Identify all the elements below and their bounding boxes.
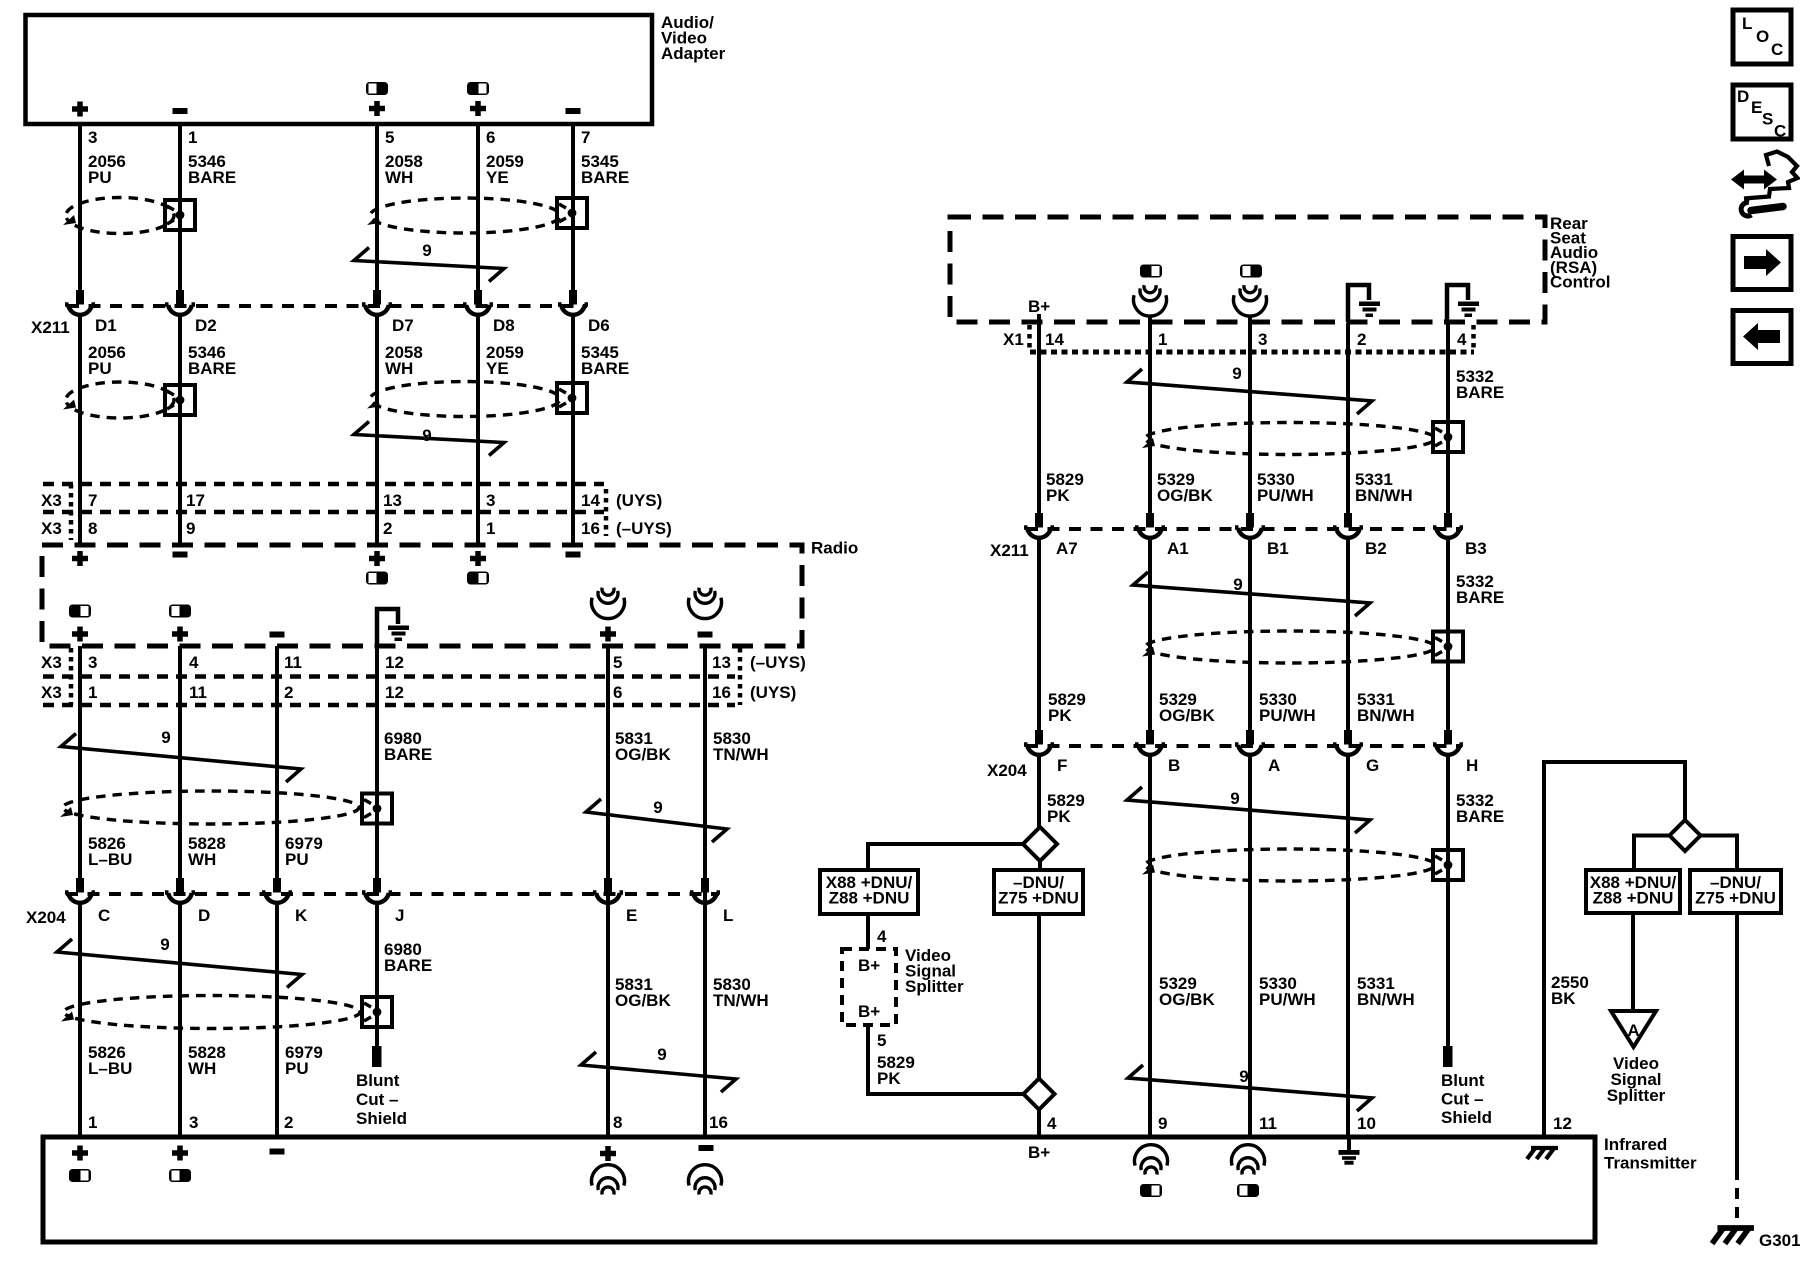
connector X211 pin B2 <box>1333 513 1387 558</box>
radio RCA icon (X3-2) <box>366 572 388 585</box>
pin number 1 (AV) <box>188 128 197 147</box>
wire label 2058 WH mid <box>385 343 423 378</box>
pin number 1 (IR box left) <box>88 1113 97 1132</box>
wire label 5330 PU/WH seg1 <box>1257 470 1314 505</box>
pin 1 X3 row2 below radio <box>88 683 97 702</box>
wire label 5829 PK seg2 <box>1048 690 1086 725</box>
svg-text:D: D <box>198 906 210 925</box>
wire -DNU to G301 (solid) <box>1735 913 1739 1169</box>
pin number 3 (IR box left) <box>189 1113 198 1132</box>
svg-text:9: 9 <box>657 1045 666 1064</box>
svg-text:X211: X211 <box>990 541 1029 560</box>
svg-text:X204: X204 <box>987 761 1027 780</box>
wire 5332 BARE (X204 to blunt cut) <box>1446 757 1450 1046</box>
wire 5828 WH (X204 to IR) <box>178 905 182 1135</box>
box Video Signal Splitter (dashed, left) <box>842 949 896 1025</box>
wire 5330 PU/WH (X211 to X204) <box>1248 540 1252 732</box>
label Blunt Cut Shield (left) <box>356 1071 407 1128</box>
blunt cut shield end (5332) <box>1443 1046 1453 1067</box>
pin 12 X3 row2 below radio <box>385 683 404 702</box>
svg-text:3: 3 <box>1258 330 1267 349</box>
svg-text:BN/WH: BN/WH <box>1357 990 1415 1009</box>
box Rear Seat Audio RSA Control (dashed) <box>950 217 1545 322</box>
svg-text:PK: PK <box>877 1069 901 1088</box>
svg-text:4: 4 <box>189 653 199 672</box>
wire label 5831 OG/BK lower <box>615 975 671 1010</box>
pin number 11 (IR box right) <box>1259 1114 1277 1133</box>
connector X3 row -UYS (below radio) <box>43 648 740 705</box>
svg-text:A: A <box>1268 756 1280 775</box>
wire label 2059 YE mid <box>486 343 524 378</box>
splitter B+ top <box>858 956 880 975</box>
wire 2550 BK <box>1544 762 1685 1135</box>
pin 16 X3 row2 below radio <box>712 683 731 702</box>
svg-text:13: 13 <box>383 491 402 510</box>
svg-text:A: A <box>1627 1021 1639 1040</box>
wire -DNU to splice 2 <box>1037 914 1041 1079</box>
connector X204 pin F <box>1024 730 1067 775</box>
svg-text:Splitter: Splitter <box>905 977 964 996</box>
wire label 5346 BARE upper <box>188 152 236 187</box>
connector X204 pin C <box>65 878 110 925</box>
svg-text:BARE: BARE <box>1456 588 1504 607</box>
svg-text:A7: A7 <box>1056 539 1078 558</box>
svg-text:PK: PK <box>1047 807 1071 826</box>
wire 5828 WH (radio to X204) <box>178 646 182 878</box>
wire X88 to video splitter triangle <box>1631 913 1635 1011</box>
wire label 5329 OG/BK seg3 <box>1159 974 1215 1009</box>
wire 5329 OG/BK (X204 to IR) <box>1148 757 1152 1135</box>
wire label 5828 WH upper <box>188 834 226 869</box>
svg-text:YE: YE <box>486 168 509 187</box>
svg-text:4: 4 <box>1047 1114 1057 1133</box>
radio pin + (X3-2) <box>369 551 385 566</box>
pin 8 X3 -UYS row <box>88 519 97 538</box>
svg-text:13: 13 <box>712 653 731 672</box>
svg-text:12: 12 <box>385 683 404 702</box>
label X3 (below radio row2) <box>41 683 62 702</box>
twisted-wires arrow 9 (upper) <box>354 241 504 282</box>
wire 5346 BARE (AV pin 1 to X211) <box>178 124 182 290</box>
svg-text:(UYS): (UYS) <box>750 683 796 702</box>
connector X204 pin L <box>690 878 733 925</box>
svg-text:PU: PU <box>88 359 112 378</box>
svg-text:9: 9 <box>1232 364 1241 383</box>
svg-text:B3: B3 <box>1465 539 1487 558</box>
svg-text:2: 2 <box>1357 330 1366 349</box>
RSA pin stub B+ <box>1037 314 1041 352</box>
svg-text:BARE: BARE <box>581 168 629 187</box>
label Audio/Video Adapter <box>661 13 726 63</box>
RSA RCA icon (pin 3) <box>1240 265 1262 278</box>
IR pin + ant L <box>600 1146 616 1161</box>
svg-text:L: L <box>723 906 733 925</box>
svg-text:L–BU: L–BU <box>88 1059 132 1078</box>
IR waves up (pin 9) <box>1135 1145 1168 1175</box>
svg-text:11: 11 <box>189 683 207 702</box>
connector X211 pin D7 <box>362 290 414 335</box>
pin 16 X3 -UYS row <box>581 519 600 538</box>
radio pin + out L <box>72 627 88 642</box>
connector X3 row UYS bottom (below radio) <box>43 703 735 708</box>
wire label 2056 PU mid <box>88 343 126 378</box>
svg-text:TN/WH: TN/WH <box>713 991 769 1010</box>
connector line X204 (right) <box>1026 744 1462 748</box>
svg-text:5: 5 <box>385 128 394 147</box>
svg-text:F: F <box>1057 756 1067 775</box>
connector X204 pin K <box>262 878 308 925</box>
connector line X204 (left) <box>66 892 719 896</box>
IR waves up L (pin 8) <box>591 1165 624 1195</box>
connector X204 pin G <box>1333 730 1379 775</box>
pin 1 X1 row <box>1158 330 1167 349</box>
shield termination rep (5346 BARE) <box>165 385 195 415</box>
pin 13 X3 row1 below radio <box>712 653 731 672</box>
label Radio <box>811 539 858 558</box>
svg-text:9: 9 <box>422 241 431 260</box>
connector X211 pin D1 <box>65 290 117 335</box>
label X204 (left) <box>26 908 66 927</box>
svg-text:12: 12 <box>1553 1114 1572 1133</box>
svg-text:Z88 +DNU: Z88 +DNU <box>829 889 910 908</box>
svg-text:Blunt: Blunt <box>1441 1071 1485 1090</box>
svg-text:S: S <box>1762 110 1773 129</box>
RSA ground pin 2 <box>1348 285 1380 322</box>
svg-text:2: 2 <box>284 683 293 702</box>
shield termination rep (5345 BARE) <box>557 383 587 413</box>
pin 11 X3 row2 below radio <box>189 683 207 702</box>
svg-text:D7: D7 <box>392 316 414 335</box>
svg-text:BN/WH: BN/WH <box>1357 706 1415 725</box>
pin number 10 (IR box right) <box>1357 1114 1376 1133</box>
svg-text:BARE: BARE <box>1456 383 1504 402</box>
IR pin + L <box>72 1146 88 1161</box>
RSA waves down (pin 3) <box>1233 285 1266 325</box>
wire 6979 PU (X204 to IR) <box>275 905 279 1135</box>
wire label 5331 BN/WH seg3 <box>1357 974 1415 1009</box>
svg-text:D8: D8 <box>493 316 515 335</box>
wire label 5345 BARE mid <box>581 343 629 378</box>
wire label 5331 BN/WH seg1 <box>1355 470 1413 505</box>
svg-text:8: 8 <box>613 1113 622 1132</box>
svg-text:14: 14 <box>581 491 600 510</box>
wire -DNU to G301 (dashed) <box>1735 1169 1739 1224</box>
svg-text:OG/BK: OG/BK <box>1159 990 1215 1009</box>
label Blunt Cut Shield (right) <box>1441 1071 1492 1127</box>
svg-text:9: 9 <box>160 935 169 954</box>
label X211 (left) <box>31 318 70 337</box>
wire label 6979 PU lower <box>285 1043 323 1078</box>
wire label 5826 L–BU lower <box>88 1043 132 1078</box>
svg-text:(UYS): (UYS) <box>616 491 662 510</box>
wire 6980 BARE (X204 to blunt cut) <box>375 905 379 1046</box>
label X3 (row UYS) <box>41 491 62 510</box>
wire label 5331 BN/WH seg2 <box>1357 690 1415 725</box>
splice diamond (2550 feed) <box>1670 820 1701 851</box>
pin number 5 (AV) <box>385 128 394 147</box>
svg-text:Transmitter: Transmitter <box>1604 1154 1697 1173</box>
twisted pair symbol (2056/5346) <box>63 198 174 234</box>
twisted-wires arrow 9 (5831/5830 upper) <box>586 798 727 842</box>
wire label 6979 PU upper <box>285 834 323 869</box>
svg-text:E: E <box>626 906 637 925</box>
wire 5330 PU/WH (X1 to X211) <box>1248 323 1252 513</box>
wire 5829 PK (X211 to X204) <box>1037 540 1041 732</box>
box -DNU/Z75 +DNU (left) <box>994 870 1083 914</box>
svg-text:PU/WH: PU/WH <box>1257 486 1314 505</box>
wire 5331 BN/WH (X211 to X204) <box>1346 540 1350 732</box>
label Video Signal Splitter (left) <box>905 946 964 996</box>
svg-text:X3: X3 <box>41 491 62 510</box>
wire label 5828 WH lower <box>188 1043 226 1078</box>
RCA jack icon (AV pin 6) <box>467 82 489 95</box>
wire label 5330 PU/WH seg3 <box>1259 974 1316 1009</box>
svg-text:(–UYS): (–UYS) <box>750 653 806 672</box>
shield termination (5332 seg3) <box>1433 850 1463 880</box>
icon wiring harness jump <box>1731 152 1798 217</box>
IR chassis ground pin 12 <box>1527 1147 1558 1159</box>
box -DNU/Z75 +DNU (right) <box>1690 870 1781 913</box>
svg-text:WH: WH <box>188 850 216 869</box>
svg-text:C: C <box>1771 40 1783 59</box>
pin 9 X3 -UYS row <box>186 519 195 538</box>
svg-text:BARE: BARE <box>384 956 432 975</box>
svg-text:H: H <box>1466 756 1478 775</box>
svg-text:7: 7 <box>88 491 97 510</box>
wire 5829 PK (X204 to splice) <box>1037 757 1041 828</box>
wire diamond to -DNU box (right) <box>1700 836 1737 871</box>
svg-text:OG/BK: OG/BK <box>1157 486 1213 505</box>
radio speaker waves + (X3-5) <box>592 588 625 619</box>
svg-text:BN/WH: BN/WH <box>1355 486 1413 505</box>
wire 5330 PU/WH (X204 to IR) <box>1248 757 1252 1135</box>
radio RCA icon out R <box>169 605 191 618</box>
radio pin + (X3-8) <box>72 551 88 566</box>
wire label 6980 BARE lower <box>384 940 432 975</box>
connector X204 pin J <box>362 878 404 925</box>
twisted pair symbol (2058/2059/5345) <box>367 198 560 233</box>
wire 2059 YE (AV pin 6 to X211) <box>476 124 480 290</box>
wire label 5346 BARE mid <box>188 343 236 378</box>
svg-text:Adapter: Adapter <box>661 44 726 63</box>
svg-text:11: 11 <box>284 653 302 672</box>
box X88 +DNU/Z88 +DNU (right) <box>1586 870 1680 913</box>
pin number 3 (AV) <box>88 128 97 147</box>
wire splice2 to IR pin 4 <box>1037 1109 1041 1137</box>
svg-text:BARE: BARE <box>188 359 236 378</box>
wire label 5831 OG/BK upper <box>615 729 671 764</box>
box Audio/Video Adapter <box>26 15 653 124</box>
wire 5346 BARE (X211 to X3) <box>178 317 182 543</box>
shield termination (5345 BARE) <box>557 198 587 228</box>
pin - (AV pin 1) <box>173 108 188 114</box>
box Infrared Transmitter <box>43 1137 1595 1242</box>
label (-UYS) <box>616 519 672 538</box>
svg-text:Control: Control <box>1550 272 1610 291</box>
pin 12 X3 row1 below radio <box>385 653 404 672</box>
svg-text:OG/BK: OG/BK <box>1159 706 1215 725</box>
label X1 <box>1003 330 1024 349</box>
IR waves up R (pin 16) <box>688 1165 721 1195</box>
twisted-wires arrow 9 (5831/5830 lower) <box>581 1045 736 1092</box>
twisted group symbol (RSA seg3) <box>1142 849 1435 881</box>
IR RCA icon (pin 9) <box>1140 1184 1162 1197</box>
pin 2 X1 row <box>1357 330 1366 349</box>
twisted group symbol (RSA seg1) <box>1142 423 1435 455</box>
svg-text:17: 17 <box>186 491 205 510</box>
radio pin + antenna <box>600 627 616 642</box>
wire label 5330 PU/WH seg2 <box>1259 690 1316 725</box>
twisted pair symbol rep (2058/2059/5345) <box>367 382 560 417</box>
wire 2059 YE (X211 to X3) <box>476 317 480 543</box>
twisted-wires arrow 9 (RSA seg4) <box>1128 1065 1372 1111</box>
wire label 5329 OG/BK seg2 <box>1159 690 1215 725</box>
pin 14 X3 UYS row <box>581 491 600 510</box>
pin 17 X3 UYS row <box>186 491 205 510</box>
svg-text:X204: X204 <box>26 908 66 927</box>
svg-text:3: 3 <box>88 653 97 672</box>
label X3 (below radio row1) <box>41 653 62 672</box>
svg-text:Radio: Radio <box>811 539 858 558</box>
svg-text:7: 7 <box>581 128 590 147</box>
svg-text:1: 1 <box>1158 330 1167 349</box>
svg-text:9: 9 <box>1158 1114 1167 1133</box>
svg-text:L: L <box>1742 14 1752 33</box>
IR waves up (pin 11) <box>1232 1145 1265 1175</box>
radio pin + out R <box>172 627 188 642</box>
shield termination (5346 BARE) <box>165 200 195 230</box>
label G301 <box>1759 1231 1800 1250</box>
svg-text:12: 12 <box>385 653 404 672</box>
wire 6980 BARE (radio to X204) <box>375 646 379 878</box>
IR RCA icon L <box>69 1169 91 1182</box>
svg-text:Blunt: Blunt <box>356 1071 400 1090</box>
label Rear Seat Audio (RSA) Control <box>1550 214 1610 291</box>
twisted-wires arrow 9 (below X204 left) <box>57 935 302 988</box>
svg-text:BK: BK <box>1551 989 1576 1008</box>
radio ground pin (X3-12) <box>377 609 409 646</box>
svg-text:WH: WH <box>188 1059 216 1078</box>
radio pin - common <box>270 632 285 638</box>
svg-text:K: K <box>295 906 308 925</box>
wire label 2058 WH upper <box>385 152 423 187</box>
svg-text:Cut –: Cut – <box>356 1090 399 1109</box>
svg-text:L–BU: L–BU <box>88 850 132 869</box>
nav box DESC <box>1733 85 1791 141</box>
svg-text:PU/WH: PU/WH <box>1259 706 1316 725</box>
pin 4 video splitter <box>877 927 887 946</box>
wire 5329 OG/BK (X1 to X211) <box>1148 323 1152 513</box>
wire diamond to -DNU box <box>1038 861 1042 870</box>
svg-text:C: C <box>98 906 110 925</box>
wire label 5829 PK seg1 <box>1046 470 1084 505</box>
svg-text:X3: X3 <box>41 653 62 672</box>
connector X204 pin A <box>1235 730 1280 775</box>
RSA label B+ (pin 14) <box>1028 297 1050 316</box>
wire label 5829 PK (splitter out) <box>877 1053 915 1088</box>
pin 4 X1 row <box>1457 330 1467 349</box>
pin number 9 (IR box right) <box>1158 1114 1167 1133</box>
svg-text:D6: D6 <box>588 316 610 335</box>
blunt cut shield end (6980) <box>372 1046 382 1067</box>
IR label B+ (pin 4) <box>1028 1143 1050 1162</box>
svg-text:16: 16 <box>581 519 600 538</box>
pin 1 X3 -UYS row <box>486 519 495 538</box>
RSA ground pin 4 <box>1447 285 1479 322</box>
wire 5830 TN/WH (radio to IR) <box>703 646 707 1135</box>
svg-text:PU: PU <box>285 850 309 869</box>
label X211 (right) <box>990 541 1029 560</box>
connector X211 pin D2 <box>165 290 217 335</box>
svg-text:5: 5 <box>877 1031 886 1050</box>
svg-text:6: 6 <box>613 683 622 702</box>
RSA RCA icon (pin 1) <box>1140 265 1162 278</box>
shield termination (5332 seg2) <box>1433 632 1463 662</box>
pin 2 X3 row2 below radio <box>284 683 293 702</box>
pin - (AV pin 7) <box>566 108 581 114</box>
svg-text:G: G <box>1366 756 1379 775</box>
svg-text:D1: D1 <box>95 316 117 335</box>
svg-text:BARE: BARE <box>1456 807 1504 826</box>
svg-text:E: E <box>1751 98 1762 117</box>
twisted-wires arrow 9 (second) <box>354 422 504 456</box>
svg-text:BARE: BARE <box>384 745 432 764</box>
IR ground pin 10 <box>1339 1137 1360 1165</box>
svg-text:5: 5 <box>613 653 622 672</box>
svg-text:OG/BK: OG/BK <box>615 991 671 1010</box>
svg-text:X3: X3 <box>41 519 62 538</box>
wire label 5329 OG/BK seg1 <box>1157 470 1213 505</box>
wire label 5332 BARE seg2 <box>1456 572 1504 607</box>
twisted-wires arrow 9 (RSA seg1) <box>1127 364 1372 414</box>
connector X204 pin B <box>1135 730 1180 775</box>
svg-text:2: 2 <box>284 1113 293 1132</box>
label Video Signal Splitter (right) <box>1607 1054 1666 1105</box>
svg-text:PK: PK <box>1048 706 1072 725</box>
svg-text:1: 1 <box>188 128 197 147</box>
wire 2056 PU (AV pin 3 to X211) <box>78 124 82 290</box>
wire label 6980 BARE upper <box>384 729 432 764</box>
pin 2 X3 -UYS row <box>383 519 392 538</box>
wire label 2550 BK <box>1551 973 1589 1008</box>
pin 13 X3 UYS row <box>383 491 402 510</box>
wire 5831 OG/BK (radio to IR) <box>606 646 610 1135</box>
nav box LOC <box>1733 10 1791 64</box>
pin 14 X1 row <box>1045 330 1064 349</box>
svg-text:B+: B+ <box>858 956 880 975</box>
pin 11 X3 row1 below radio <box>284 653 302 672</box>
svg-text:PK: PK <box>1046 486 1070 505</box>
twisted pair symbol rep (2056/5346) <box>63 382 174 418</box>
svg-text:9: 9 <box>653 798 662 817</box>
box Radio (dashed) <box>42 545 802 646</box>
svg-text:B: B <box>1168 756 1180 775</box>
wire 2058 WH (X211 to X3) <box>375 317 379 543</box>
svg-text:G301: G301 <box>1759 1231 1800 1250</box>
splice diamond (5829 PK upper) <box>1023 827 1057 861</box>
twisted-wires arrow 9 (RSA seg2) <box>1133 572 1370 616</box>
connector X211 pin D8 <box>463 290 515 335</box>
svg-text:BARE: BARE <box>188 168 236 187</box>
svg-text:9: 9 <box>161 728 170 747</box>
pin + (AV pin 6) <box>470 101 486 116</box>
svg-text:Shield: Shield <box>1441 1108 1492 1127</box>
svg-text:Shield: Shield <box>356 1109 407 1128</box>
svg-text:B+: B+ <box>1028 297 1050 316</box>
RSA waves down (pin 1) <box>1134 285 1167 325</box>
svg-text:16: 16 <box>709 1113 728 1132</box>
connector X204 pin D <box>165 878 210 925</box>
